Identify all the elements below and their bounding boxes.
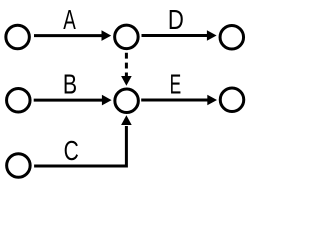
- edge A (arrow from node 1 to node 2): [34, 30, 111, 41]
- edge C (L-shaped arrow from node 7 up into node 5): [34, 115, 132, 166]
- label C: [64, 135, 79, 167]
- node 2 (top-center circle): [115, 25, 138, 49]
- edge E (arrow from node 5 to node 6): [141, 95, 217, 106]
- label D: [168, 6, 184, 36]
- node 5 (middle-center circle): [115, 89, 139, 113]
- label A: [63, 5, 76, 35]
- edge B (arrow from node 4 to node 5): [34, 95, 112, 106]
- dashed edge (node 2 to node 5): [121, 53, 132, 86]
- label E: [170, 68, 182, 99]
- svg-text:A: A: [63, 5, 76, 35]
- label B: [63, 70, 77, 100]
- node 4 (middle-left circle): [7, 89, 31, 113]
- node 6 (middle-right circle): [220, 88, 244, 112]
- edge D (arrow from node 2 to node 3): [142, 30, 217, 41]
- svg-text:B: B: [63, 70, 77, 100]
- node 7 (bottom-left circle): [7, 154, 31, 178]
- node 3 (top-right circle): [220, 26, 244, 50]
- svg-text:D: D: [168, 6, 184, 36]
- svg-text:E: E: [170, 68, 182, 99]
- svg-text:C: C: [64, 135, 79, 167]
- node 1 (top-left circle): [6, 25, 30, 49]
